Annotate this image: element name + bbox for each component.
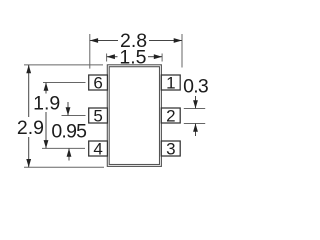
svg-text:0.3: 0.3	[183, 76, 208, 98]
pin 1 (top right)	[161, 75, 180, 90]
pin 2 (middle right)	[161, 108, 180, 123]
svg-text:3: 3	[166, 140, 175, 159]
svg-text:0.95: 0.95	[51, 120, 87, 142]
svg-text:2: 2	[166, 107, 175, 126]
dimension 2.9 dimension line + arrows	[28, 65, 30, 117]
svg-text:6: 6	[93, 74, 102, 93]
svg-text:2.9: 2.9	[17, 117, 44, 139]
svg-text:1.9: 1.9	[33, 93, 60, 115]
dimension 2.8 dimension line + arrows	[90, 40, 118, 42]
dimension 0.3 (lead width) extension lines	[184, 108, 205, 110]
dimension 0.95 (pin pitch) extension line at pin5 center	[62, 115, 86, 117]
pin 3 (bottom right)	[161, 141, 180, 156]
svg-text:4: 4	[93, 140, 102, 159]
package body inner outline	[109, 67, 159, 165]
package body outer outline	[107, 65, 161, 167]
dimension 0.95 outside arrows	[67, 102, 69, 116]
dimension 1.5 (body width) extension lines	[106, 54, 108, 62]
svg-text:1.5: 1.5	[119, 46, 146, 68]
svg-text:1: 1	[166, 74, 175, 93]
pin 6 (top left)	[89, 75, 108, 90]
dimension 0.3 outside arrows	[195, 96, 197, 109]
pin 5 (middle left)	[89, 108, 108, 123]
dimension 2.9 (overall height) extension lines	[24, 64, 103, 66]
dimension 1.9 (pin6 to pin4 span) extension lines	[43, 82, 86, 84]
dimension 1.9 dimension line + arrows	[45, 83, 47, 94]
svg-text:5: 5	[93, 107, 102, 126]
pin 4 (bottom left)	[89, 141, 108, 156]
dimension 1.5 dimension line + arrows	[107, 56, 118, 58]
dimension 2.8 (overall width) extension lines	[89, 34, 91, 69]
